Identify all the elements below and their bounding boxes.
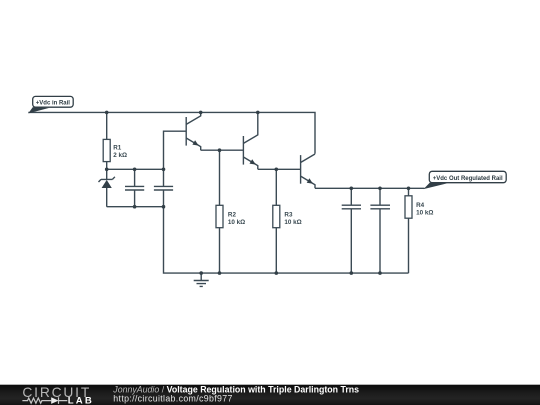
svg-text:LAB: LAB <box>68 395 94 405</box>
svg-text:+Vdc in Rail: +Vdc in Rail <box>36 100 71 106</box>
svg-text:10 kΩ: 10 kΩ <box>284 219 301 226</box>
svg-text:R2: R2 <box>228 211 237 218</box>
svg-text:R4: R4 <box>416 202 425 209</box>
svg-text:R3: R3 <box>284 211 293 218</box>
svg-text:+Vdc Out Regulated Rail: +Vdc Out Regulated Rail <box>433 176 503 182</box>
svg-text:http://circuitlab.com/c9bf977: http://circuitlab.com/c9bf977 <box>113 394 232 404</box>
svg-text:2 kΩ: 2 kΩ <box>113 152 127 159</box>
svg-text:10 kΩ: 10 kΩ <box>416 209 433 216</box>
svg-text:R1: R1 <box>113 145 122 152</box>
svg-text:10 kΩ: 10 kΩ <box>228 219 245 226</box>
